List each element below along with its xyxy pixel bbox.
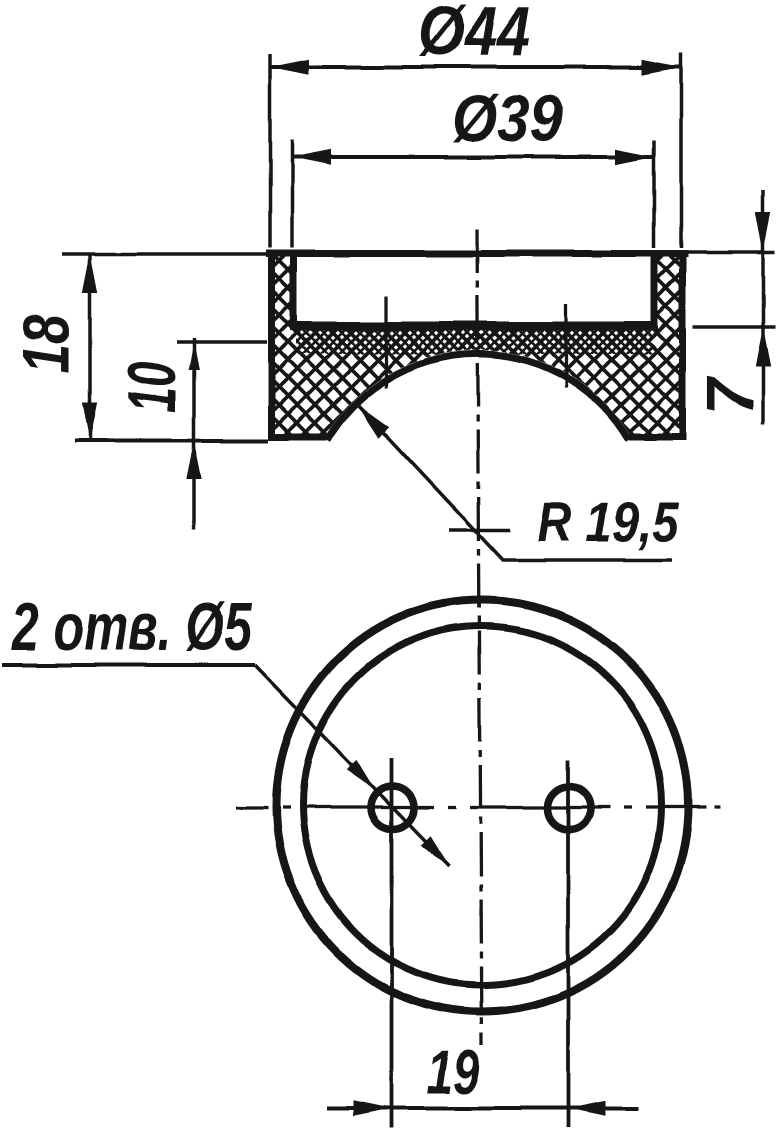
svg-text:Ø39: Ø39 [452,81,562,155]
svg-text:7: 7 [693,376,768,416]
svg-text:10: 10 [114,361,190,413]
svg-text:2 отв. Ø5: 2 отв. Ø5 [11,589,253,665]
svg-text:R 19,5: R 19,5 [537,490,680,553]
svg-text:18: 18 [9,315,83,373]
svg-text:Ø44: Ø44 [418,0,530,70]
svg-text:19: 19 [427,1038,480,1107]
